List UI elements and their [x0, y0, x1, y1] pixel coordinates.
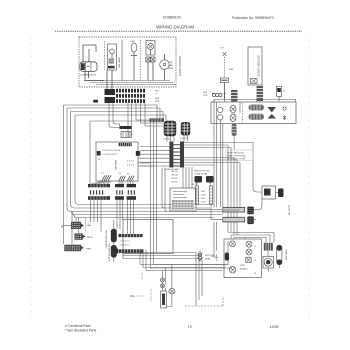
left harness loop (down the left side) — [64, 105, 164, 244]
svg-text:1 2 3 4 5 6 J1 K2: 1 2 3 4 5 6 J1 K2 — [102, 154, 118, 156]
svg-text:EI28BS51I0: EI28BS51I0 — [163, 15, 181, 19]
wire pair to junction box — [162, 168, 167, 212]
wires to ice maker — [163, 265, 172, 292]
svg-text:CAP: CAP — [130, 40, 135, 43]
svg-text:START DEV: START DEV — [118, 57, 121, 69]
mullion heater lower — [249, 114, 265, 120]
svg-text:Publication No. 5995506479: Publication No. 5995506479 — [232, 16, 274, 20]
svg-text:BK-16: BK-16 — [172, 171, 178, 173]
module pin strip left — [195, 186, 198, 204]
svg-text:LINE: LINE — [86, 225, 91, 227]
main control board — [96, 142, 140, 181]
freezer light box — [146, 41, 155, 56]
dispenser board pin labels — [254, 246, 257, 275]
sensor plug upper bar — [115, 184, 124, 187]
ice maker fuse stub — [142, 273, 151, 301]
svg-text:MTR: MTR — [155, 101, 160, 103]
svg-text:AIR SENSOR ASSY: AIR SENSOR ASSY — [108, 244, 111, 263]
harness strips to right bundle — [184, 121, 262, 235]
svg-text:5 6 7 8: 5 6 7 8 — [127, 165, 134, 167]
run capacitor — [131, 43, 137, 81]
display harness connector A — [164, 121, 176, 136]
fresh food sensor marks — [283, 107, 286, 120]
svg-text:FAN: FAN — [169, 64, 174, 67]
water valve box (upper right) — [262, 186, 278, 199]
svg-text:7 8 9 10 11 12 13 14: 7 8 9 10 11 12 13 14 — [102, 150, 121, 152]
svg-text:HTR: HTR — [203, 95, 208, 97]
feeder bar to CON A — [150, 118, 165, 122]
dispenser lamp bottom — [229, 267, 236, 274]
svg-text:15A: 15A — [130, 294, 135, 298]
svg-text:DOOR SW: DOOR SW — [288, 205, 290, 215]
interface connector blob 2 — [206, 176, 214, 183]
wires to water valve box — [224, 199, 263, 220]
door harness plug upper — [197, 207, 245, 212]
board bottom connector group right — [127, 174, 134, 181]
sensor plug pins — [117, 190, 123, 194]
machine compartment dashed enclosure — [79, 37, 176, 87]
svg-text:RD-18: RD-18 — [172, 178, 179, 180]
junction box connector bar upper — [119, 234, 143, 237]
svg-text:GN-18: GN-18 — [172, 182, 179, 184]
left service connectors: plug with pigtail — [62, 222, 92, 229]
fresh food divider — [242, 103, 244, 123]
compressor harness connector lower — [105, 97, 116, 103]
svg-text:WH-16: WH-16 — [172, 175, 179, 177]
sensor plug lower bar — [115, 196, 124, 200]
risers below sensor plug — [117, 200, 123, 229]
svg-text:DEFROST HEATER: DEFROST HEATER — [257, 55, 260, 77]
svg-text:DEF: DEF — [203, 92, 208, 94]
start device rotated label — [118, 57, 121, 69]
PTC start relay dashed link — [104, 41, 106, 70]
compressor label — [80, 75, 96, 77]
ice maker label — [130, 294, 144, 298]
ice route junction box (bottom centre) — [123, 220, 173, 254]
defrost thermostat — [220, 48, 229, 100]
ground note symbol — [211, 255, 219, 261]
svg-text:FREEZER COMPT: FREEZER COMPT — [178, 56, 181, 77]
board fan-out to power plug — [91, 181, 111, 184]
relay plug upper bar — [127, 184, 137, 187]
ground terminal strip — [64, 245, 91, 252]
fresh food lamp terminals — [218, 107, 223, 120]
freezer harness pin table — [116, 89, 145, 103]
splice block — [93, 100, 98, 103]
dispenser switch — [246, 257, 251, 262]
door plug mate blob lower — [247, 216, 254, 224]
relay plug pins — [128, 190, 134, 194]
freezer section labels — [155, 91, 160, 104]
svg-text:GRN: GRN — [86, 249, 91, 251]
svg-text:NEUT: NEUT — [87, 237, 94, 239]
dispenser control board box — [224, 239, 262, 278]
svg-text:3 6 4 8 2 1: 3 6 4 8 2 1 — [120, 245, 131, 247]
footer page number — [188, 325, 192, 329]
main control board silk text — [98, 150, 134, 171]
module pin strip right — [209, 186, 212, 204]
svg-text:OF CONNECTIONS: OF CONNECTIONS — [227, 159, 246, 161]
svg-text:SHEET FOR DETAIL: SHEET FOR DETAIL — [227, 155, 247, 158]
svg-text:FRZ: FRZ — [169, 62, 174, 64]
board edge connector ladder rail 1 — [169, 142, 173, 168]
defrost heater element — [203, 92, 226, 97]
auger motor connector (hatched) — [264, 243, 273, 251]
risers below relay plug — [128, 200, 134, 234]
svg-text:FRZ SENSOR ASSY: FRZ SENSOR ASSY — [105, 230, 108, 249]
board bottom connector group mid — [119, 173, 126, 181]
junction box connector bar lower — [115, 249, 144, 254]
fuse rotated label — [285, 205, 290, 261]
fresh food compartment box — [211, 102, 296, 124]
dispenser lamp mid — [246, 249, 252, 255]
svg-text:SEE NOTE FOR: SEE NOTE FOR — [194, 171, 210, 173]
thermistor capsule 1 — [105, 229, 117, 250]
svg-text:1 2 5 5 1 0: 1 2 5 5 1 0 — [120, 241, 131, 243]
note block — [226, 150, 254, 161]
defrost thermostat label — [229, 69, 234, 71]
wires board to ladder — [138, 147, 169, 167]
CON to ladder stubs — [167, 135, 188, 141]
svg-text:FAN: FAN — [155, 97, 159, 100]
svg-text:1 BK: 1 BK — [201, 191, 206, 193]
mullion heater upper — [249, 105, 265, 111]
junction box pin text — [120, 241, 131, 247]
svg-text:BOARD: BOARD — [240, 267, 248, 270]
board bottom connector group left — [101, 173, 111, 181]
header publication number — [232, 16, 274, 20]
door plug mate blob upper — [247, 207, 254, 215]
evaporator tall box — [248, 47, 262, 85]
fresh food section bus — [214, 99, 296, 102]
svg-text:J4 P12: J4 P12 — [192, 184, 199, 186]
svg-text:MTR: MTR — [169, 68, 174, 70]
ice maker body — [161, 291, 167, 308]
overload / PTC relay — [108, 44, 117, 70]
water valve mate blob — [278, 189, 284, 198]
evaporator connector (hatched) — [257, 86, 264, 101]
ladder caption — [164, 169, 179, 171]
crusher motor — [263, 257, 274, 269]
title WIRING DIAGRAM — [156, 25, 194, 30]
svg-text:DISP: DISP — [240, 265, 245, 267]
ice dispenser module box — [170, 188, 196, 211]
thermal fuse — [277, 87, 287, 101]
dispenser solenoid — [225, 253, 229, 261]
dispenser lamp top-left — [229, 241, 235, 247]
wires crusher/fuse — [268, 251, 279, 272]
footer date — [270, 325, 279, 329]
fresh food lamps — [230, 105, 236, 121]
bottom distribution wires — [123, 241, 228, 306]
relay plug lower bar — [127, 196, 137, 200]
box A dividers — [122, 40, 141, 81]
svg-text:4 GN: 4 GN — [201, 202, 206, 204]
svg-text:# Functional Parts: # Functional Parts — [65, 324, 91, 328]
board fan-out to sensor plug — [119, 181, 123, 184]
freezer compartment label (rotated) — [178, 56, 181, 77]
dashed service line — [185, 296, 223, 306]
svg-text:3 RD: 3 RD — [201, 198, 206, 200]
left service connector 2 — [75, 233, 94, 239]
lower right feed bundle — [228, 233, 274, 243]
svg-text:1 2 3 4: 1 2 3 4 — [127, 161, 134, 163]
defrost harness connector (hatched) — [231, 90, 238, 102]
harness junction block — [120, 126, 132, 138]
door fuse capsule — [277, 245, 282, 265]
module pin labels — [192, 184, 206, 204]
freezer light connector pair — [146, 57, 155, 81]
door harness plug lower — [211, 204, 245, 222]
interface connector blob 1 — [194, 171, 210, 183]
risers below power plug — [91, 200, 102, 232]
svg-text:MAIN BRD: MAIN BRD — [114, 160, 117, 170]
machine compartment bus wires — [84, 70, 176, 89]
wire gauge labels — [172, 171, 179, 184]
board power plug upper bar — [88, 184, 110, 187]
svg-text:COMPRESSOR: COMPRESSOR — [80, 75, 96, 77]
footer functional parts note — [65, 324, 97, 333]
sensor capsule below FF box — [232, 124, 237, 137]
svg-text:DEF: DEF — [229, 69, 234, 71]
board power plug pins — [91, 190, 103, 194]
svg-text:GND: GND — [211, 256, 216, 258]
svg-text:12/09: 12/09 — [270, 325, 279, 329]
compressor harness connector upper — [105, 89, 116, 95]
freezer fan label — [169, 62, 174, 70]
svg-text:19: 19 — [188, 325, 192, 329]
freezer fan motor — [160, 54, 170, 81]
ice maker terminals — [161, 278, 165, 288]
display harness connector B — [181, 122, 190, 135]
header model number — [163, 15, 181, 19]
compressor motor wiring loop — [83, 45, 104, 81]
board power plug lower bar — [88, 196, 110, 200]
ladder rungs — [173, 145, 180, 166]
service dashed drop — [85, 218, 87, 232]
compressor motor — [80, 62, 97, 72]
run capacitor label — [130, 40, 135, 43]
svg-text:* Non-Illustrated Parts: * Non-Illustrated Parts — [65, 329, 97, 333]
dispenser lamp top-mid — [246, 241, 252, 247]
board edge connector ladder rail 2 — [180, 142, 184, 168]
svg-text:WIRING DIAGRAM: WIRING DIAGRAM — [156, 25, 194, 30]
wires to thermistors — [113, 220, 115, 262]
svg-text:2 WH: 2 WH — [201, 195, 207, 197]
svg-text:CON A: CON A — [163, 138, 170, 141]
dispenser wire drop to lower board — [140, 122, 232, 268]
wire drops to module — [183, 167, 211, 188]
board fan-out to relay plug — [128, 181, 133, 184]
title rule — [55, 30, 302, 32]
water fill valve coil — [198, 251, 215, 262]
main harness top bundle — [64, 86, 241, 257]
svg-text:FUSE 120V: FUSE 120V — [285, 250, 287, 262]
air damper — [268, 107, 277, 119]
svg-text:CONN DETAIL: CONN DETAIL — [194, 173, 209, 176]
svg-text:CON B: CON B — [180, 138, 187, 140]
thermistor capsule 2 — [108, 244, 117, 263]
connector labels — [163, 138, 187, 141]
wires to service connectors — [72, 212, 79, 245]
lower cross bus — [71, 205, 226, 218]
svg-text:NOTE: SEE TECH: NOTE: SEE TECH — [227, 153, 244, 155]
ice maker mold motor — [166, 289, 175, 307]
